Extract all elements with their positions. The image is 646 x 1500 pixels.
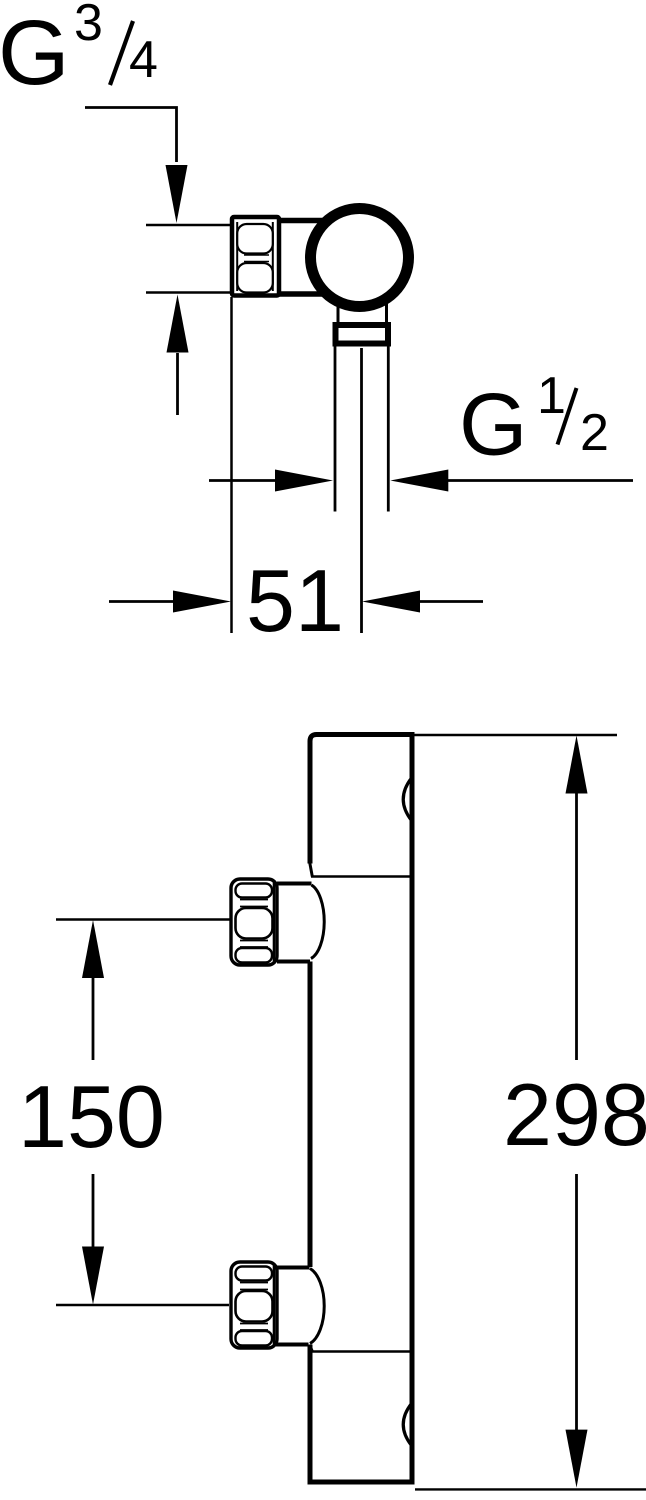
- svg-text:4: 4: [129, 31, 158, 89]
- svg-text:298: 298: [503, 1065, 646, 1164]
- svg-text:1: 1: [537, 367, 566, 425]
- svg-text:G: G: [459, 375, 527, 474]
- svg-text:51: 51: [246, 551, 344, 650]
- svg-text:3: 3: [74, 0, 103, 52]
- svg-text:G: G: [0, 2, 70, 104]
- svg-text:2: 2: [580, 404, 609, 462]
- svg-text:150: 150: [18, 1067, 165, 1166]
